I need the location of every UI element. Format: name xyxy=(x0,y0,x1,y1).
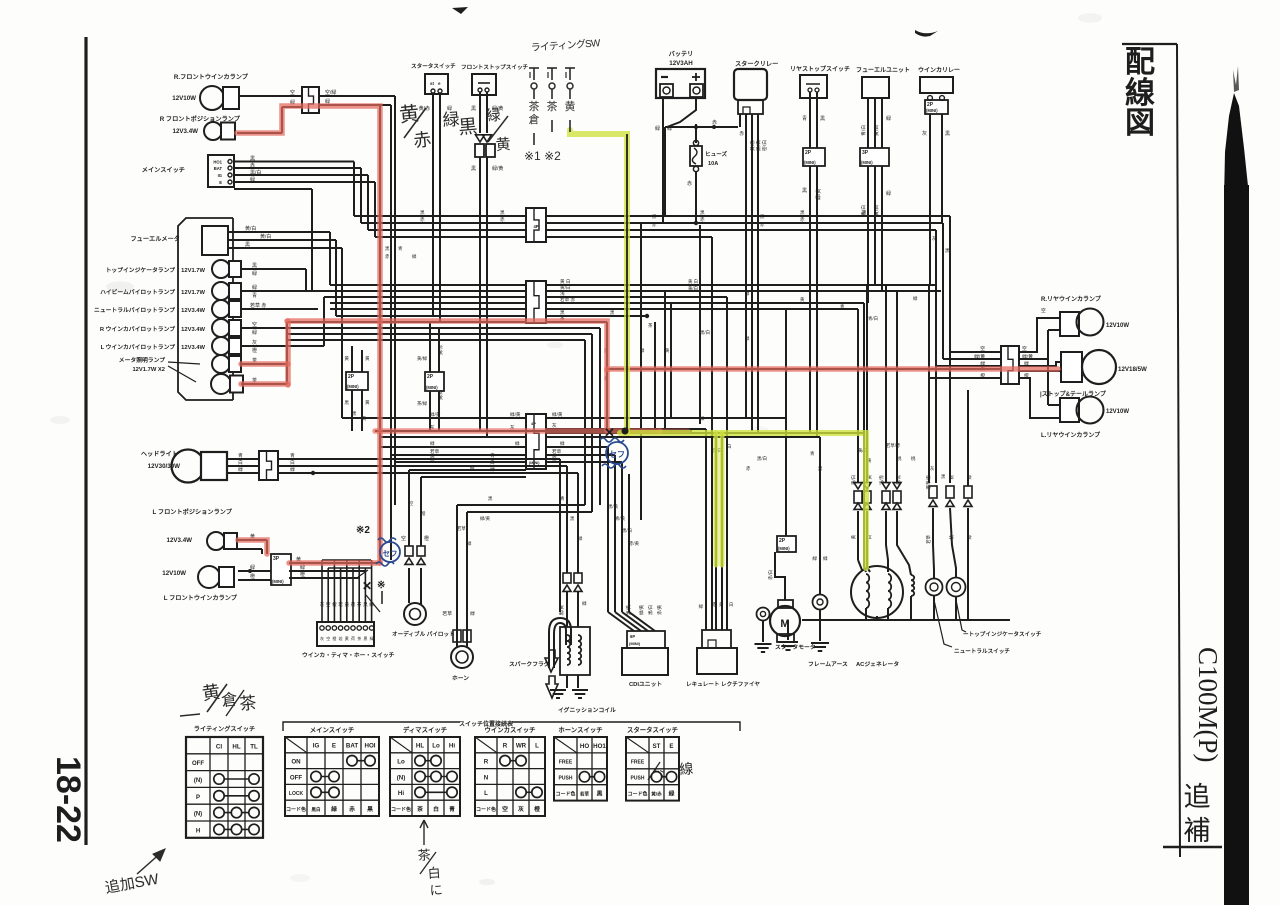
svg-text:イグニッションコイル: イグニッションコイル xyxy=(558,706,616,714)
svg-text:L フロントウインカランプ: L フロントウインカランプ xyxy=(164,594,238,602)
svg-text:若草: 若草 xyxy=(552,448,562,455)
svg-text:フロントストップスイッチ: フロントストップスイッチ xyxy=(461,63,529,71)
svg-text:黒: 黒 xyxy=(245,242,250,248)
svg-text:緑: 緑 xyxy=(578,535,583,541)
svg-text:補: 補 xyxy=(1184,816,1211,846)
svg-text:黄/赤: 黄/赤 xyxy=(651,791,662,798)
svg-text:12V10W: 12V10W xyxy=(1106,409,1129,415)
svg-text:スタータスイッチ: スタータスイッチ xyxy=(627,725,678,734)
svg-text:空: 空 xyxy=(1022,345,1027,352)
svg-text:黄: 黄 xyxy=(719,601,724,608)
svg-text:赤: 赤 xyxy=(739,131,744,137)
svg-text:スタータモータ: スタータモータ xyxy=(775,643,816,651)
svg-text:緑/黄: 緑/黄 xyxy=(1022,353,1033,360)
svg-text:橙: 橙 xyxy=(252,347,257,354)
svg-text:スタークリレー: スタークリレー xyxy=(735,60,778,68)
svg-text:若草 赤: 若草 赤 xyxy=(560,296,575,303)
svg-text:HOI: HOI xyxy=(364,743,375,750)
svg-text:コード色: コード色 xyxy=(286,806,306,813)
svg-text:12V10W: 12V10W xyxy=(162,570,186,577)
svg-text:緑: 緑 xyxy=(745,335,750,341)
svg-text:|ストップ&テールランプ: |ストップ&テールランプ xyxy=(1040,390,1107,398)
svg-text:ウインカ・ティマ・ホー・スイッチ: ウインカ・ティマ・ホー・スイッチ xyxy=(302,651,395,659)
svg-text:黄: 黄 xyxy=(365,355,370,362)
svg-text:フレームアース: フレームアース xyxy=(808,661,848,668)
svg-text:緑: 緑 xyxy=(515,440,520,446)
svg-text:セフ: セフ xyxy=(383,549,398,558)
svg-text:茶: 茶 xyxy=(357,601,362,607)
svg-text:オーディブル パイロット: オーディブル パイロット xyxy=(392,630,455,638)
svg-text:茶: 茶 xyxy=(357,635,361,641)
svg-text:緑: 緑 xyxy=(252,329,257,336)
svg-text:黒/白: 黒/白 xyxy=(757,455,767,462)
svg-text:緑: 緑 xyxy=(290,466,295,473)
svg-text:黒: 黒 xyxy=(597,790,603,798)
svg-text:倉: 倉 xyxy=(529,112,540,126)
svg-text:黄/白: 黄/白 xyxy=(873,125,880,136)
svg-text:ライティングスイッチ: ライティングスイッチ xyxy=(194,725,255,733)
svg-text:灰: 灰 xyxy=(932,235,937,242)
svg-text:3P: 3P xyxy=(273,556,280,562)
svg-text:12V3.4W: 12V3.4W xyxy=(173,128,199,135)
svg-text:12V10W: 12V10W xyxy=(1106,323,1129,329)
svg-text:緑: 緑 xyxy=(699,603,704,609)
svg-text:12V30/30W: 12V30/30W xyxy=(148,463,180,470)
svg-text:青: 青 xyxy=(449,805,455,813)
svg-text:赤: 赤 xyxy=(700,217,705,222)
svg-text:橙: 橙 xyxy=(332,635,336,641)
svg-text:黒: 黒 xyxy=(471,166,476,172)
svg-text:空: 空 xyxy=(290,89,295,96)
svg-text:赤: 赤 xyxy=(420,217,425,222)
svg-text:赤: 赤 xyxy=(712,602,717,607)
svg-text:灰: 灰 xyxy=(518,805,524,813)
svg-text:白: 白 xyxy=(427,865,441,881)
svg-text:黄: 黄 xyxy=(345,635,349,641)
svg-text:橙: 橙 xyxy=(300,571,305,578)
svg-text:OFF: OFF xyxy=(192,761,204,767)
svg-text:(MINI): (MINI) xyxy=(926,108,938,113)
svg-text:黒/白: 黒/白 xyxy=(755,140,762,151)
svg-text:黄: 黄 xyxy=(398,102,420,127)
svg-text:※: ※ xyxy=(377,580,385,591)
svg-text:赤: 赤 xyxy=(687,181,692,187)
svg-text:HL: HL xyxy=(232,743,240,750)
svg-text:黒/黄: 黒/黄 xyxy=(608,503,619,510)
svg-text:に: に xyxy=(429,882,443,898)
svg-text:セフ: セフ xyxy=(609,450,625,459)
svg-text:12V3.4W: 12V3.4W xyxy=(167,537,193,544)
svg-text:緑: 緑 xyxy=(412,253,417,259)
svg-text:12V10W: 12V10W xyxy=(172,95,196,102)
svg-text:P: P xyxy=(196,795,200,801)
svg-text:黒: 黒 xyxy=(252,263,257,269)
svg-text:N: N xyxy=(484,774,489,781)
svg-text:Hi: Hi xyxy=(449,743,455,750)
svg-text:緑: 緑 xyxy=(370,635,374,641)
svg-text:バッテリ: バッテリ xyxy=(669,50,694,58)
svg-text:C100M(P): C100M(P) xyxy=(1193,647,1223,763)
svg-text:WR: WR xyxy=(516,743,527,750)
svg-text:赤/黄: 赤/黄 xyxy=(656,604,663,615)
svg-text:FREE: FREE xyxy=(559,760,573,766)
svg-text:黄: 黄 xyxy=(201,682,222,704)
svg-text:10A: 10A xyxy=(708,161,718,167)
svg-text:2P: 2P xyxy=(348,374,355,380)
svg-text:フューエルメータ: フューエルメータ xyxy=(131,235,181,243)
svg-text:桃: 桃 xyxy=(911,455,916,462)
svg-text:空/緑: 空/緑 xyxy=(325,89,336,96)
svg-text:緑/黄: 緑/黄 xyxy=(480,515,491,522)
svg-text:図: 図 xyxy=(1125,107,1155,140)
svg-text:黒/白: 黒/白 xyxy=(647,605,654,615)
svg-text:橙: 橙 xyxy=(250,573,255,580)
svg-text:スタータスイッチ: スタータスイッチ xyxy=(411,62,456,70)
svg-text:E: E xyxy=(669,743,673,750)
svg-text:灰: 灰 xyxy=(252,339,257,346)
svg-text:緑/黄: 緑/黄 xyxy=(815,189,822,200)
svg-text:(MINI): (MINI) xyxy=(426,385,438,390)
svg-text:メインスイッチ: メインスイッチ xyxy=(142,167,185,174)
svg-text:黄/緑: 黄/緑 xyxy=(437,389,444,400)
svg-text:IG: IG xyxy=(218,173,222,178)
svg-text:緑: 緑 xyxy=(252,284,257,291)
svg-text:緑: 緑 xyxy=(560,440,565,446)
svg-text:黄 白: 黄 白 xyxy=(560,278,570,285)
svg-text:Lo: Lo xyxy=(397,759,405,766)
svg-text:HO1: HO1 xyxy=(213,160,222,165)
svg-text:灰: 灰 xyxy=(320,601,325,608)
svg-text:桃: 桃 xyxy=(897,455,902,462)
svg-text:白: 白 xyxy=(433,805,439,813)
svg-text:茶: 茶 xyxy=(416,805,423,813)
svg-text:緑/黄: 緑/黄 xyxy=(974,353,985,360)
svg-text:FREE: FREE xyxy=(631,760,645,766)
svg-text:R: R xyxy=(484,759,489,766)
svg-text:(N): (N) xyxy=(397,774,406,781)
svg-text:4P: 4P xyxy=(531,421,536,426)
svg-text:線: 線 xyxy=(1125,76,1155,110)
svg-text:若草/赤: 若草/赤 xyxy=(886,442,901,449)
svg-text:LOCK: LOCK xyxy=(289,791,304,797)
svg-text:緑/黄: 緑/黄 xyxy=(492,165,503,172)
svg-text:2P: 2P xyxy=(779,538,786,544)
svg-text:緑/黄: 緑/黄 xyxy=(552,411,563,418)
svg-text:ST: ST xyxy=(653,743,661,750)
svg-text:コード色: コード色 xyxy=(627,791,647,798)
svg-text:若草: 若草 xyxy=(457,525,466,532)
svg-text:空: 空 xyxy=(252,321,257,328)
svg-text:黄/白: 黄/白 xyxy=(688,285,698,292)
svg-text:赤/白: 赤/白 xyxy=(767,570,774,580)
svg-text:12V3.4W: 12V3.4W xyxy=(181,327,205,333)
svg-text:灰: 灰 xyxy=(320,635,324,641)
svg-text:空: 空 xyxy=(980,345,985,352)
svg-text:青: 青 xyxy=(840,303,845,310)
svg-text:赤: 赤 xyxy=(385,254,390,259)
svg-text:ディマスイッチ: ディマスイッチ xyxy=(403,725,447,734)
svg-text:ウインカリレー: ウインカリレー xyxy=(918,66,960,74)
svg-text:st: st xyxy=(430,81,435,86)
svg-text:緑/黄: 緑/黄 xyxy=(638,604,645,615)
svg-text:スパークフラグ: スパークフラグ xyxy=(509,660,550,668)
svg-text:緑: 緑 xyxy=(886,115,891,122)
svg-text:配: 配 xyxy=(1125,46,1155,79)
svg-text:ヒューズ: ヒューズ xyxy=(705,150,728,158)
svg-text:黒/黄: 黒/黄 xyxy=(625,604,632,615)
svg-text:黄/緑: 黄/緑 xyxy=(417,355,428,362)
svg-text:※2: ※2 xyxy=(356,525,370,536)
svg-text:浅: 浅 xyxy=(560,290,565,296)
svg-text:TL: TL xyxy=(250,743,258,750)
svg-text:ヘッドライト: ヘッドライト xyxy=(141,451,178,458)
svg-text:レキュレート レクチファイヤ: レキュレート レクチファイヤ xyxy=(686,680,760,688)
svg-text:黒: 黒 xyxy=(945,131,950,137)
svg-text:12V1.7W: 12V1.7W xyxy=(181,268,205,274)
svg-text:R ウインカパイロットランプ: R ウインカパイロットランプ xyxy=(100,325,175,333)
svg-text:緑/黄: 緑/黄 xyxy=(510,411,521,418)
svg-text:青: 青 xyxy=(238,452,243,459)
svg-text:BAT: BAT xyxy=(346,743,358,750)
svg-text:黒/白: 黒/白 xyxy=(250,169,261,176)
svg-text:PUSH: PUSH xyxy=(631,776,645,782)
svg-text:ON: ON xyxy=(291,759,301,766)
svg-text:12V18/5W: 12V18/5W xyxy=(1118,366,1147,373)
svg-text:緑: 緑 xyxy=(823,555,828,561)
svg-text:BAT: BAT xyxy=(214,166,223,171)
svg-text:6P: 6P xyxy=(630,634,635,639)
svg-text:HO: HO xyxy=(580,743,589,750)
svg-text:茶/緑: 茶/緑 xyxy=(417,400,428,406)
svg-text:緑: 緑 xyxy=(812,555,817,561)
svg-text:メインスイッチ: メインスイッチ xyxy=(310,726,355,734)
svg-text:HO1: HO1 xyxy=(593,743,606,750)
svg-text:黄/赤: 黄/赤 xyxy=(437,344,444,355)
svg-text:若草: 若草 xyxy=(580,791,590,798)
svg-text:白: 白 xyxy=(290,459,295,466)
svg-text:ホーン: ホーン xyxy=(452,675,469,682)
svg-text:青: 青 xyxy=(290,452,295,459)
svg-text:Lo: Lo xyxy=(432,743,440,750)
svg-text:赤: 赤 xyxy=(652,222,657,227)
svg-text:青: 青 xyxy=(802,115,807,122)
svg-text:黄/黒: 黄/黒 xyxy=(895,474,902,485)
svg-text:12V1.7W X2: 12V1.7W X2 xyxy=(132,367,165,373)
svg-text:コード色: コード色 xyxy=(391,806,411,813)
svg-text:倉: 倉 xyxy=(221,690,239,710)
svg-text:緑: 緑 xyxy=(485,107,501,125)
svg-text:✕: ✕ xyxy=(362,579,372,593)
svg-text:黄: 黄 xyxy=(365,399,370,406)
svg-text:黒/白: 黒/白 xyxy=(622,527,632,534)
svg-text:茶: 茶 xyxy=(529,100,540,113)
svg-text:若草: 若草 xyxy=(442,610,452,617)
svg-text:黒: 黒 xyxy=(820,116,825,122)
svg-text:ニュートラルスイッチ: ニュートラルスイッチ xyxy=(954,648,1010,655)
svg-text:緑: 緑 xyxy=(966,474,972,479)
svg-text:黒: 黒 xyxy=(363,636,367,641)
svg-text:4P: 4P xyxy=(533,224,538,229)
svg-text:赤: 赤 xyxy=(800,217,805,222)
svg-text:茶: 茶 xyxy=(547,100,558,113)
svg-text:緑: 緑 xyxy=(250,176,255,183)
svg-text:ACジェネレータ: ACジェネレータ xyxy=(856,660,899,668)
svg-text:E: E xyxy=(332,743,336,750)
svg-text:赤: 赤 xyxy=(349,805,355,813)
svg-text:緑: 緑 xyxy=(430,440,435,446)
svg-text:空: 空 xyxy=(326,601,331,607)
svg-text:18-22: 18-22 xyxy=(49,756,87,843)
svg-text:浅/赤: 浅/赤 xyxy=(878,474,884,485)
svg-text:黄: 黄 xyxy=(800,296,805,303)
svg-text:黒/黄: 黒/黄 xyxy=(558,605,565,616)
svg-text:赤: 赤 xyxy=(746,466,751,471)
svg-text:12V3.4W: 12V3.4W xyxy=(181,308,205,314)
svg-text:L.リヤウインカランプ: L.リヤウインカランプ xyxy=(1041,431,1101,439)
svg-text:フューエルユニット: フューエルユニット xyxy=(856,67,910,74)
svg-text:白: 白 xyxy=(729,601,733,608)
svg-text:灰: 灰 xyxy=(552,422,557,429)
svg-text:橙: 橙 xyxy=(534,805,540,813)
svg-text:ニュートラルパイロットランプ: ニュートラルパイロットランプ xyxy=(94,306,175,314)
svg-text:青: 青 xyxy=(560,495,565,502)
svg-text:灰: 灰 xyxy=(930,465,935,472)
svg-text:緑: 緑 xyxy=(1024,360,1029,367)
svg-text:メータ照明ランプ: メータ照明ランプ xyxy=(119,356,165,364)
svg-text:密/白: 密/白 xyxy=(761,140,768,151)
svg-text:(N): (N) xyxy=(194,778,202,784)
svg-text:黄: 黄 xyxy=(565,99,576,113)
svg-text:赤: 赤 xyxy=(250,163,255,169)
svg-text:黒: 黒 xyxy=(250,156,255,162)
svg-text:緑: 緑 xyxy=(640,347,645,353)
svg-text:緑: 緑 xyxy=(745,290,750,296)
svg-text:CDIユニット: CDIユニット xyxy=(629,681,662,688)
svg-text:コード色: コード色 xyxy=(476,806,496,813)
svg-text:青: 青 xyxy=(490,452,495,459)
svg-text:緑: 緑 xyxy=(913,295,918,301)
svg-text:黄: 黄 xyxy=(665,347,670,354)
svg-text:R.リヤウインカランプ: R.リヤウインカランプ xyxy=(1041,295,1102,303)
svg-text:黄/白: 黄/白 xyxy=(850,475,857,485)
svg-text:黄/白: 黄/白 xyxy=(245,225,256,232)
svg-text:(MINI): (MINI) xyxy=(347,384,359,389)
svg-text:緑: 緑 xyxy=(252,270,257,277)
svg-text:緑: 緑 xyxy=(669,790,675,798)
svg-text:緑: 緑 xyxy=(886,190,891,197)
svg-text:Hi: Hi xyxy=(398,790,404,797)
svg-text:茶: 茶 xyxy=(238,693,257,714)
svg-text:青: 青 xyxy=(252,292,257,299)
svg-text:白: 白 xyxy=(727,443,731,450)
svg-text:緑: 緑 xyxy=(470,610,475,617)
svg-text:黒: 黒 xyxy=(458,116,479,139)
svg-text:2P: 2P xyxy=(427,374,434,380)
svg-text:緑: 緑 xyxy=(331,805,337,813)
svg-text:3P: 3P xyxy=(862,150,869,156)
svg-text:若草: 若草 xyxy=(925,534,932,543)
svg-text:12V3AH: 12V3AH xyxy=(669,60,693,67)
svg-text:(MINI): (MINI) xyxy=(629,641,641,646)
svg-text:R: R xyxy=(503,743,508,750)
svg-text:ートップインジケータスイッチ: ートップインジケータスイッチ xyxy=(963,630,1042,638)
svg-text:HL: HL xyxy=(416,743,424,750)
svg-text:黄/白: 黄/白 xyxy=(560,284,570,291)
svg-text:黄: 黄 xyxy=(344,355,349,362)
svg-text:橙: 橙 xyxy=(980,372,985,379)
svg-text:12V3.4W: 12V3.4W xyxy=(181,345,205,351)
svg-text:2P: 2P xyxy=(805,150,812,156)
svg-text:若草: 若草 xyxy=(430,448,440,455)
svg-text:茶: 茶 xyxy=(648,322,653,328)
svg-text:CI: CI xyxy=(216,743,222,750)
svg-text:桃: 桃 xyxy=(948,474,955,479)
svg-text:緑: 緑 xyxy=(582,600,587,606)
svg-text:(MINI): (MINI) xyxy=(861,160,873,165)
svg-text:L: L xyxy=(535,743,539,750)
svg-text:空: 空 xyxy=(409,500,414,506)
svg-text:コード色: コード色 xyxy=(555,791,575,798)
svg-text:橙: 橙 xyxy=(332,601,337,608)
svg-text:黄 白: 黄 白 xyxy=(688,278,698,285)
svg-text:橙: 橙 xyxy=(1024,372,1029,379)
svg-text:赤: 赤 xyxy=(412,129,432,151)
svg-text:黄: 黄 xyxy=(344,601,349,608)
svg-text:青: 青 xyxy=(810,450,815,457)
svg-text:白: 白 xyxy=(490,459,495,466)
svg-text:橙: 橙 xyxy=(424,535,429,542)
svg-text:リヤストップスイッチ: リヤストップスイッチ xyxy=(790,65,850,73)
svg-text:※1 ※2: ※1 ※2 xyxy=(524,149,561,163)
svg-text:赤: 赤 xyxy=(760,222,765,227)
svg-text:(MINI): (MINI) xyxy=(804,160,816,165)
svg-text:若草 赤: 若草 赤 xyxy=(250,302,266,309)
svg-text:黄: 黄 xyxy=(850,534,857,539)
svg-text:空: 空 xyxy=(326,635,330,641)
svg-text:空: 空 xyxy=(1041,307,1046,314)
svg-text:青/白: 青/白 xyxy=(868,315,878,322)
svg-text:R.フロントウインカランプ: R.フロントウインカランプ xyxy=(174,73,249,81)
svg-text:トップインジケータランプ: トップインジケータランプ xyxy=(106,266,176,274)
svg-text:空: 空 xyxy=(401,535,406,542)
svg-text:(MINI): (MINI) xyxy=(272,579,284,584)
svg-text:桃: 桃 xyxy=(948,534,955,539)
svg-text:青: 青 xyxy=(398,245,403,252)
svg-text:黄: 黄 xyxy=(362,415,367,422)
svg-text:ホーンスイッチ: ホーンスイッチ xyxy=(558,726,602,734)
svg-text:黄: 黄 xyxy=(495,136,511,154)
svg-text:黒: 黒 xyxy=(367,805,373,813)
svg-text:黒: 黒 xyxy=(802,188,807,194)
svg-text:E: E xyxy=(219,180,222,185)
svg-text:荷: 荷 xyxy=(351,635,355,641)
svg-text:黄/白: 黄/白 xyxy=(260,233,271,240)
svg-text:L ウインカパイロットランプ: L ウインカパイロットランプ xyxy=(101,343,176,351)
svg-text:OFF: OFF xyxy=(290,774,303,781)
svg-text:(MINI): (MINI) xyxy=(529,461,540,465)
svg-text:H: H xyxy=(196,828,200,834)
svg-text:若: 若 xyxy=(339,635,343,641)
svg-text:灰: 灰 xyxy=(922,130,927,137)
svg-text:緑: 緑 xyxy=(700,415,705,421)
svg-text:黒/白: 黒/白 xyxy=(700,329,710,336)
svg-text:赤/黄: 赤/黄 xyxy=(629,540,640,547)
svg-text:黒: 黒 xyxy=(471,106,476,112)
svg-text:青/黄: 青/黄 xyxy=(615,515,626,522)
svg-text:青/白: 青/白 xyxy=(860,125,867,136)
svg-text:黒白: 黒白 xyxy=(311,806,321,813)
svg-text:緑: 緑 xyxy=(238,466,243,473)
